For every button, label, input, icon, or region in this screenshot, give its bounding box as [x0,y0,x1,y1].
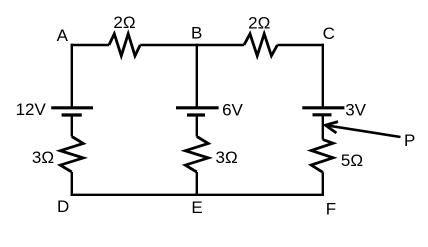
battery 12V short plate [62,113,82,116]
svg-text:D: D [57,197,69,216]
battery 3V long plate [302,106,344,109]
resistor 3Ω middle [185,137,208,173]
wire B to R2 [197,44,244,46]
wire resistor 3Ω middle to E [196,172,198,196]
svg-text:F: F [326,199,336,218]
svg-text:2Ω: 2Ω [113,13,135,32]
wire R2 to C [277,44,324,46]
battery 6V long plate [176,106,219,109]
svg-text:12V: 12V [16,100,47,119]
resistor 5Ω [311,140,333,173]
wire battery 12V to resistor 3Ω left [71,115,73,137]
battery 12V long plate [51,106,93,109]
svg-text:P: P [404,131,415,150]
wire D to E to F (bottom) [71,194,324,196]
svg-text:A: A [57,26,69,45]
resistor 2Ω B-C [244,34,277,56]
wire R1 to B [140,44,197,46]
wire B down to battery 6V [196,44,198,108]
wire battery 3V to resistor 5Ω [322,115,324,140]
svg-text:5Ω: 5Ω [341,151,363,170]
wire resistor 3Ω left to D [71,172,73,196]
wire A down to battery 12V [71,44,73,108]
svg-text:3Ω: 3Ω [32,148,54,167]
wire resistor 5Ω to F [322,172,324,196]
wire A to R1 [71,44,109,46]
svg-text:E: E [191,198,202,217]
battery 3V short plate [313,113,332,116]
wire C down to battery 3V [322,44,324,108]
svg-text:6V: 6V [222,101,243,120]
resistor 3Ω left [60,137,83,173]
svg-text:C: C [323,24,335,43]
pointer arrowhead [325,122,338,133]
wire battery 6V to resistor 3Ω middle [196,115,198,137]
svg-text:3V: 3V [345,101,366,120]
svg-text:3Ω: 3Ω [216,148,238,167]
resistor 2Ω A-B [109,34,140,56]
pointer arrow shaft to P [326,125,400,137]
svg-text:B: B [191,23,202,42]
battery 6V short plate [187,113,205,116]
svg-text:2Ω: 2Ω [248,14,270,33]
